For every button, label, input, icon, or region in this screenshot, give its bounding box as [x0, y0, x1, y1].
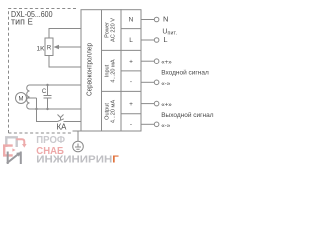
svg-text:1K: 1K	[37, 46, 46, 53]
svg-text:Входной сигнал: Входной сигнал	[161, 69, 209, 77]
svg-text:«+»: «+»	[161, 59, 172, 66]
svg-text:тип Е: тип Е	[11, 16, 33, 26]
svg-text:L: L	[163, 35, 167, 44]
svg-text:-: -	[130, 79, 132, 86]
svg-text:ПРОФ: ПРОФ	[36, 135, 65, 146]
svg-text:M: M	[19, 96, 24, 102]
svg-text:+: +	[129, 58, 133, 65]
svg-text:«+»: «+»	[161, 101, 172, 108]
svg-text:N: N	[163, 15, 168, 24]
svg-text:-: -	[130, 121, 132, 128]
svg-text:«-»: «-»	[161, 122, 171, 129]
svg-text:Сервоконтроллер: Сервоконтроллер	[84, 43, 93, 96]
svg-text:R: R	[47, 46, 52, 52]
svg-text:4...20 мА: 4...20 мА	[111, 100, 117, 123]
svg-text:AC 220 V: AC 220 V	[111, 18, 117, 42]
svg-text:КА: КА	[57, 123, 68, 132]
svg-text:Выходной сигнал: Выходной сигнал	[161, 111, 214, 119]
svg-text:«-»: «-»	[161, 80, 171, 87]
svg-text:ИНЖИНИРИНГ: ИНЖИНИРИНГ	[36, 154, 119, 165]
svg-text:C: C	[42, 89, 47, 95]
svg-text:N: N	[129, 16, 134, 23]
svg-text:L: L	[129, 37, 133, 44]
svg-text:+: +	[129, 101, 133, 108]
svg-text:4...20 мА: 4...20 мА	[111, 59, 117, 82]
